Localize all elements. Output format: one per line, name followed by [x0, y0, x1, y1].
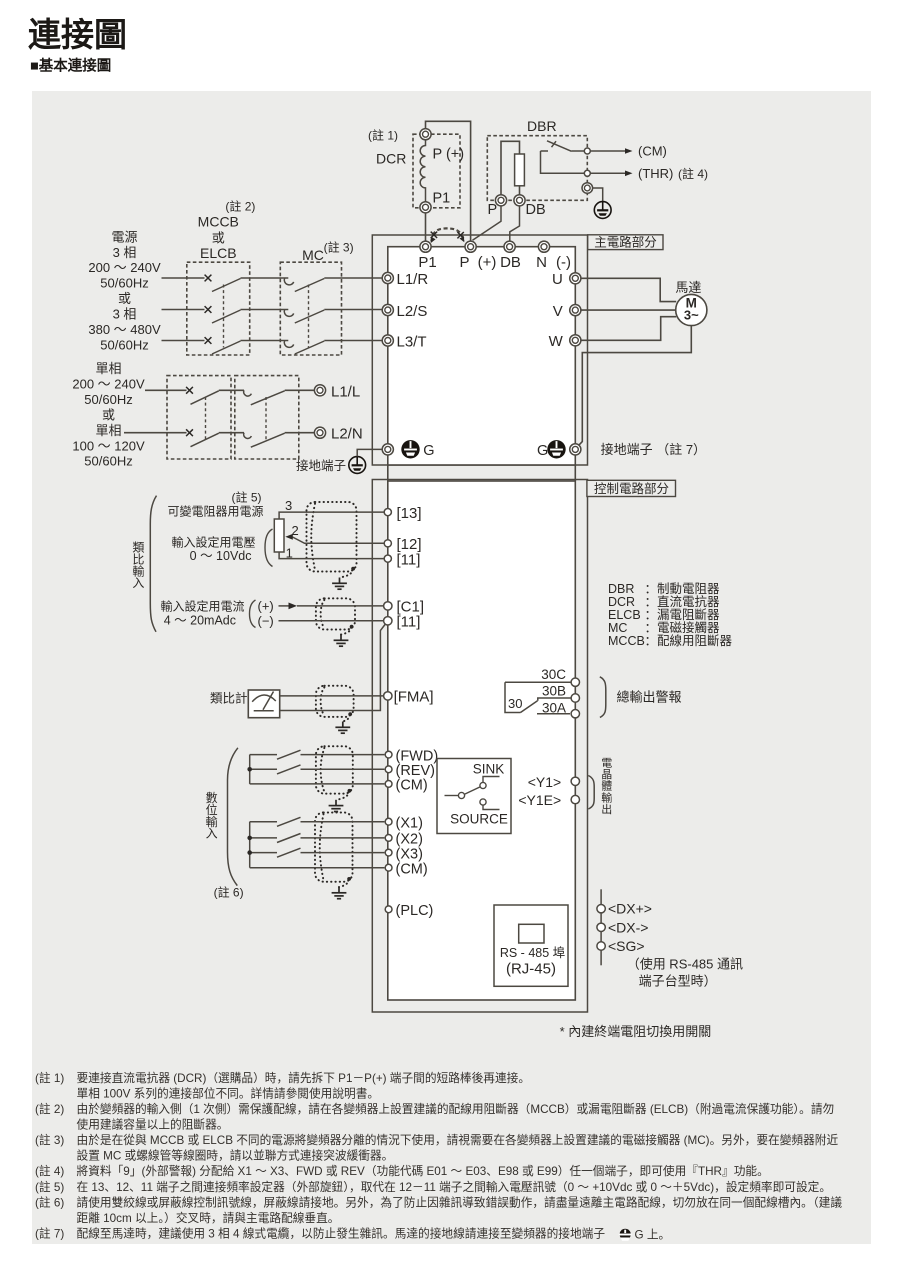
svg-text:L1/L: L1/L	[331, 383, 360, 400]
svg-text:將資料「9」(外部警報) 分配給 X1 〜 X3、FWD 或: 將資料「9」(外部警報) 分配給 X1 〜 X3、FWD 或 REV（功能代碼 …	[77, 1164, 769, 1178]
dashed jumper bar P1 to P(+) (to be removed)	[431, 228, 464, 241]
svg-text:(CM): (CM)	[396, 778, 428, 794]
junction dot X2	[247, 836, 252, 841]
terminal L3/T	[382, 335, 393, 346]
breaker pole 2 (MCCB/ELCB)	[205, 306, 212, 313]
wire V to motor	[581, 309, 676, 311]
svg-text:(-): (-)	[556, 254, 571, 271]
svg-text:配線至馬達時，建議使用 3 相 4 線式電纜，以防止發生雜訊: 配線至馬達時，建議使用 3 相 4 線式電纜，以防止發生雜訊。馬達的接地線請連接…	[77, 1227, 606, 1241]
digital bus X group	[249, 822, 251, 868]
svg-text:SOURCE: SOURCE	[450, 811, 508, 826]
terminal DX+	[597, 905, 605, 913]
svg-text:(X3): (X3)	[396, 846, 423, 862]
svg-text:(REV): (REV)	[396, 763, 435, 779]
ground of X shield	[332, 887, 347, 899]
terminal (CM) 2	[385, 864, 392, 871]
bracket 數位輸入	[228, 748, 238, 886]
wire contactor to input terminal phase 1	[324, 277, 382, 279]
contactor mechanical link dashed	[308, 285, 310, 348]
svg-text:MC: MC	[608, 621, 627, 635]
bracket 類比輸入	[150, 496, 156, 632]
svg-text:(註 2): (註 2)	[225, 199, 255, 213]
svg-text:1: 1	[286, 546, 293, 561]
svg-text:30B: 30B	[542, 684, 566, 699]
svg-text:L1/R: L1/R	[397, 271, 429, 288]
terminal P(+) (main)	[465, 241, 476, 252]
svg-text:3: 3	[285, 498, 292, 513]
svg-text:200 〜 240V: 200 〜 240V	[88, 260, 161, 275]
svg-text:出: 出	[601, 802, 612, 816]
svg-text:50/60Hz: 50/60Hz	[100, 276, 148, 291]
resistor DBR element	[515, 154, 525, 186]
svg-text:V: V	[553, 303, 563, 320]
svg-text:(註 2): (註 2)	[35, 1103, 64, 1116]
svg-text:要連接直流電抗器 (DCR)（選購品）時，請先拆下 P1－P: 要連接直流電抗器 (DCR)（選購品）時，請先拆下 P1－P(+) 端子間的短路…	[77, 1071, 531, 1085]
svg-text:2: 2	[292, 523, 299, 538]
svg-text:0 〜 10Vdc: 0 〜 10Vdc	[190, 549, 252, 563]
analog meter symbol	[248, 690, 279, 718]
earth symbol DBR	[594, 202, 611, 219]
wire pot terminal 3 to [13]	[279, 512, 384, 519]
svg-text:MCCB: MCCB	[198, 213, 239, 229]
wire breaker to contactor phase 3	[241, 340, 289, 342]
svg-text:<Y1E>: <Y1E>	[518, 792, 561, 808]
switch X1	[250, 821, 277, 823]
inner edge connector left between boxes	[387, 465, 389, 481]
protective earth symbol G right	[547, 440, 565, 458]
svg-text:<SG>: <SG>	[608, 938, 645, 954]
svg-text:[11]: [11]	[397, 551, 421, 568]
svg-text:或: 或	[102, 407, 115, 422]
control-circuit outer box	[372, 480, 587, 1013]
svg-text:<DX->: <DX->	[608, 919, 648, 935]
svg-text:單相: 單相	[95, 361, 121, 376]
svg-text:DB: DB	[500, 254, 521, 271]
svg-text:(X1): (X1)	[396, 816, 423, 832]
svg-text:：配線用阻斷器: ：配線用阻斷器	[645, 633, 733, 648]
wire resistor to DB	[519, 186, 521, 195]
terminal 30A	[571, 710, 579, 718]
svg-text:(註 1): (註 1)	[368, 129, 398, 143]
wire CM2 common	[250, 867, 385, 869]
svg-text:3~: 3~	[684, 308, 699, 323]
wire contactor to L-terminal 1	[285, 389, 315, 391]
svg-text:由於變頻器的輸入側（1 次側）需保護配線，請在各變頻器上設置: 由於變頻器的輸入側（1 次側）需保護配線，請在各變頻器上設置建議的配線用阻斷器（…	[77, 1102, 835, 1116]
terminal P1 (main)	[420, 241, 431, 252]
brace alarm outputs	[600, 677, 606, 718]
svg-text:(RJ-45): (RJ-45)	[506, 961, 556, 978]
wire CM common	[250, 783, 385, 785]
terminal 30B	[571, 694, 579, 702]
x-mark remove jumper left	[431, 232, 437, 238]
svg-text:電: 電	[601, 757, 612, 770]
ground of FWD shield	[329, 800, 344, 812]
svg-text:P: P	[488, 202, 498, 218]
control-circuit inner box	[388, 481, 576, 1000]
svg-text:DCR: DCR	[376, 151, 406, 167]
svg-text:輸入設定用電流: 輸入設定用電流	[160, 599, 244, 614]
svg-text:[FMA]: [FMA]	[394, 689, 434, 706]
svg-text:3 相: 3 相	[113, 245, 137, 260]
terminal [13]	[384, 508, 391, 515]
wire source phase 3	[162, 340, 205, 342]
arrow to (THR)	[590, 172, 627, 174]
wire DBR ground to earth	[593, 188, 603, 202]
wire single-phase line 2	[124, 432, 187, 434]
terminal N(-) (main)	[538, 241, 549, 252]
protective earth symbol G left	[401, 440, 419, 458]
shield around FWD/REV/CM wires	[316, 746, 353, 800]
svg-text:100 〜 120V: 100 〜 120V	[72, 438, 145, 453]
terminal (X2)	[385, 835, 392, 842]
svg-text:端子台型時）: 端子台型時）	[639, 973, 717, 988]
svg-text:DCR: DCR	[608, 595, 635, 609]
svg-text:P (+): P (+)	[433, 147, 465, 163]
svg-text:L2/N: L2/N	[331, 426, 363, 443]
terminal [11] analog common	[384, 617, 392, 625]
svg-text:入: 入	[132, 576, 144, 590]
wire meter to [FMA]	[280, 695, 385, 697]
wiper wire from [12]	[293, 537, 385, 543]
svg-text:可變電阻器用電源: 可變電阻器用電源	[167, 504, 263, 519]
svg-text:MCCB: MCCB	[608, 634, 645, 648]
breaker pole 3 (MCCB/ELCB)	[205, 337, 212, 344]
svg-text:(註 5): (註 5)	[232, 490, 262, 504]
svg-text:(註 1): (註 1)	[35, 1072, 64, 1085]
svg-text:：電磁接觸器: ：電磁接觸器	[645, 620, 721, 635]
wire single-phase line 1	[145, 389, 187, 391]
terminal G (right)	[570, 444, 581, 455]
contact node to (THR)	[584, 170, 590, 176]
switch FWD	[250, 754, 277, 756]
svg-text:30C: 30C	[541, 667, 566, 682]
main-circuit inner box (inverter power section)	[388, 247, 576, 465]
svg-text:(CM): (CM)	[396, 862, 428, 878]
single-phase breaker link dashed	[205, 397, 207, 440]
terminal G (left)	[382, 444, 393, 455]
terminal DB (main)	[504, 241, 515, 252]
terminal DB of DBR	[514, 195, 525, 206]
contactor pole 3 (MC)	[284, 341, 293, 348]
ground terminal of DBR	[582, 183, 593, 194]
main-circuit outer box	[372, 235, 587, 465]
switch X2	[250, 837, 277, 839]
svg-text:由於是在從與 MCCB 或 ELCB 不同的電源將變頻器分離: 由於是在從與 MCCB 或 ELCB 不同的電源將變頻器分離的情況下使用，請視需…	[77, 1133, 839, 1147]
svg-text:(註 3): (註 3)	[324, 241, 354, 255]
svg-text:4 〜 20mAdc: 4 〜 20mAdc	[164, 613, 236, 627]
svg-text:輸: 輸	[601, 790, 612, 804]
svg-text:：制動電阻器: ：制動電阻器	[645, 582, 721, 596]
terminal U	[570, 273, 581, 284]
svg-text:<Y1>: <Y1>	[528, 774, 561, 790]
svg-text:(註 4): (註 4)	[35, 1165, 64, 1178]
svg-text:馬達: 馬達	[675, 280, 701, 295]
svg-text:(+): (+)	[478, 254, 497, 271]
svg-text:50/60Hz: 50/60Hz	[100, 337, 148, 352]
bracket for voltage input rows	[265, 529, 273, 567]
wire meter return to [11]	[280, 624, 386, 711]
svg-text:L2/S: L2/S	[397, 303, 428, 320]
svg-text:(THR): (THR)	[638, 166, 673, 181]
terminal (PLC)	[385, 906, 392, 913]
svg-text:體: 體	[601, 780, 612, 793]
svg-text:[11]: [11]	[397, 614, 421, 631]
terminal L2/S	[382, 304, 393, 315]
wire contactor to L-terminal 2	[285, 432, 315, 434]
svg-text:■基本連接圖: ■基本連接圖	[30, 57, 111, 75]
bracket for current input rows	[250, 600, 256, 628]
svg-text:（使用 RS-485 通訊: （使用 RS-485 通訊	[627, 957, 743, 972]
single-phase MCCB dashed box	[167, 376, 231, 459]
svg-text:* 內建終端電阻切換用開關: * 內建終端電阻切換用開關	[560, 1024, 712, 1039]
svg-text:<DX+>: <DX+>	[608, 901, 652, 917]
single-phase contactor pole 1	[244, 390, 252, 396]
terminal 30C	[571, 678, 579, 686]
shield around meter wires	[316, 686, 354, 722]
svg-text:類比計: 類比計	[210, 690, 248, 705]
wire DBR P to main P(+)	[473, 206, 502, 240]
svg-text:N: N	[536, 254, 547, 271]
svg-text:(FWD): (FWD)	[396, 748, 439, 764]
RJ-45 jack square	[519, 924, 544, 943]
wire thermal contact to THR	[541, 151, 585, 173]
svg-text:P1: P1	[418, 254, 436, 271]
svg-text:控制電路部分: 控制電路部分	[594, 481, 669, 496]
contactor pole 2 (MC)	[284, 310, 293, 317]
contact node to (CM)	[584, 148, 590, 154]
wire DBR DB to main DB	[510, 206, 520, 241]
wire contactor to input terminal phase 2	[324, 309, 382, 311]
svg-text:(註 6): (註 6)	[35, 1196, 64, 1209]
svg-text:(+): (+)	[258, 599, 274, 614]
single-phase MC dashed box	[235, 376, 299, 459]
arrow to (CM)	[590, 150, 627, 152]
terminal (CM)	[385, 781, 392, 788]
switch X3	[250, 852, 277, 854]
terminal Y1E	[571, 795, 579, 803]
wire W to motor	[581, 317, 676, 341]
ground of current shield	[334, 635, 349, 647]
svg-text:G 上。: G 上。	[635, 1229, 671, 1242]
inductor coil DCR	[420, 140, 425, 202]
svg-text:距離 10cm 以上。）交叉時，請與主電路配線垂直。: 距離 10cm 以上。）交叉時，請與主電路配線垂直。	[77, 1211, 340, 1225]
svg-text:或: 或	[118, 291, 131, 306]
wire to single-phase contactor 1	[219, 389, 244, 391]
wire to single-phase contactor 2	[219, 432, 244, 434]
svg-text:請使用雙絞線或屏蔽線控制訊號線，屏蔽線請接地。另外，為了防止: 請使用雙絞線或屏蔽線控制訊號線，屏蔽線請接地。另外，為了防止因雜訊導致錯誤動作，…	[77, 1195, 843, 1209]
shield around current input wires	[316, 598, 355, 634]
terminal (FWD)	[385, 751, 392, 758]
SINK/SOURCE selector box	[437, 759, 511, 834]
shield around potentiometer wires	[307, 502, 357, 578]
svg-text:接地端子 （註 7）: 接地端子 （註 7）	[601, 442, 706, 457]
svg-text:50/60Hz: 50/60Hz	[84, 392, 132, 407]
motor M circle	[676, 294, 707, 325]
thermal contact in DBR	[541, 150, 549, 152]
switch REV	[250, 768, 277, 770]
single-phase contactor link dashed	[265, 397, 267, 440]
wire source phase 2	[162, 309, 205, 311]
svg-text:：直流電抗器: ：直流電抗器	[645, 594, 721, 609]
svg-text:200 〜 240V: 200 〜 240V	[72, 376, 145, 391]
wire DCR P(+) up-over to main P(+)	[426, 121, 471, 241]
terminal [FMA]	[384, 692, 392, 700]
wire breaker to contactor phase 2	[241, 309, 289, 311]
svg-text:輸入設定用電壓: 輸入設定用電壓	[171, 535, 255, 550]
digital bus FWD group	[249, 755, 251, 784]
wire U to motor	[581, 278, 676, 301]
terminal V	[570, 305, 581, 316]
svg-text:(註 4): (註 4)	[678, 167, 708, 181]
svg-text:入: 入	[206, 827, 218, 841]
wire pot terminal 1 to [11]	[279, 552, 384, 559]
inner edge connector right between boxes	[574, 465, 576, 481]
svg-text:單相 100V 系列的連接部位不同。詳情請參閱使用說明書。: 單相 100V 系列的連接部位不同。詳情請參閱使用說明書。	[77, 1086, 380, 1100]
shield around X1-X3 wires	[315, 813, 353, 888]
terminal P of DBR	[495, 195, 506, 206]
wire motor ground to G right	[577, 326, 692, 448]
breaker mechanical link dashed	[223, 285, 225, 348]
terminal DX-	[597, 923, 605, 931]
svg-text:DBR: DBR	[608, 582, 634, 596]
svg-text:P: P	[459, 254, 469, 271]
svg-text:(−): (−)	[258, 613, 274, 628]
svg-text:380 〜 480V: 380 〜 480V	[88, 322, 161, 337]
svg-text:30A: 30A	[542, 701, 566, 716]
wire DCR P1 down to main P1	[425, 213, 427, 241]
svg-text:使用建議容量以上的阻斷器。: 使用建議容量以上的阻斷器。	[77, 1118, 229, 1132]
ground of meter shield	[335, 722, 350, 734]
svg-text:總輸出警報: 總輸出警報	[617, 690, 682, 705]
RS-485 terminal strip line	[600, 889, 602, 965]
svg-text:50/60Hz: 50/60Hz	[84, 454, 132, 469]
svg-text:接地端子: 接地端子	[296, 458, 346, 473]
wire breaker to contactor phase 1	[241, 277, 289, 279]
svg-text:：漏電阻斷器: ：漏電阻斷器	[645, 607, 721, 622]
svg-text:或: 或	[212, 230, 225, 245]
svg-text:(X2): (X2)	[396, 832, 423, 848]
terminal W	[570, 335, 581, 346]
terminal L1/L	[314, 385, 325, 396]
svg-text:W: W	[549, 333, 564, 350]
svg-text:DBR: DBR	[527, 118, 557, 134]
svg-text:L3/T: L3/T	[397, 333, 427, 350]
wire P up-over inside DBR	[501, 141, 520, 195]
svg-text:P1: P1	[433, 191, 451, 207]
MCCB/ELCB dashed box	[187, 262, 250, 355]
junction dot REV	[247, 767, 252, 772]
svg-text:連接圖: 連接圖	[28, 16, 127, 53]
single-phase breaker pole 2	[186, 429, 193, 436]
terminal [11]	[384, 555, 391, 562]
svg-text:(註 7): (註 7)	[35, 1228, 64, 1241]
svg-text:單相: 單相	[95, 423, 121, 438]
terminal (X1)	[385, 818, 392, 825]
svg-text:ELCB: ELCB	[200, 245, 237, 261]
wire (−) to [11]	[279, 620, 385, 622]
svg-text:(註 6): (註 6)	[214, 885, 244, 899]
wire contactor to input terminal phase 3	[324, 340, 382, 342]
ground of pot shield	[332, 578, 347, 590]
svg-text:在 13、12、11 端子之間連接頻率設定器（外部旋鈕），取: 在 13、12、11 端子之間連接頻率設定器（外部旋鈕），取代在 12－11 端…	[77, 1180, 832, 1194]
junction dot X3	[247, 850, 252, 855]
label box 控制電路部分	[587, 480, 676, 496]
svg-text:(註 5): (註 5)	[35, 1181, 64, 1194]
wire (+) to [C1] with arrow	[279, 605, 290, 607]
terminal Y1	[571, 777, 579, 785]
svg-text:DB: DB	[526, 202, 546, 218]
brace transistor outputs	[588, 776, 594, 810]
svg-text:U: U	[552, 271, 563, 288]
single-phase contactor pole 2	[244, 433, 252, 439]
svg-text:電源: 電源	[111, 229, 137, 244]
svg-text:設置 MC 或螺線管等線圈時，請以並聯方式連接突波緩衝器。: 設置 MC 或螺線管等線圈時，請以並聯方式連接突波緩衝器。	[77, 1149, 394, 1163]
MC dashed box	[280, 262, 341, 355]
terminal (REV)	[385, 766, 392, 773]
svg-text:主電路部分: 主電路部分	[594, 234, 657, 249]
terminal L2/N	[314, 427, 325, 438]
svg-text:ELCB: ELCB	[608, 608, 641, 622]
svg-text:[13]: [13]	[397, 505, 422, 522]
terminal L1/R	[382, 272, 393, 283]
svg-text:(PLC): (PLC)	[396, 903, 434, 919]
label box 主電路部分	[588, 235, 663, 250]
svg-text:晶: 晶	[601, 768, 612, 781]
terminal [C1]	[384, 602, 392, 610]
svg-text:RS - 485 埠: RS - 485 埠	[500, 946, 565, 960]
svg-text:MC: MC	[302, 247, 324, 263]
terminal P(+) of DCR	[420, 129, 431, 140]
x-mark remove jumper right	[457, 232, 463, 238]
relay 30 contact	[505, 681, 571, 683]
earth symbol in footnote	[619, 1229, 632, 1241]
wire source phase 1	[162, 277, 205, 279]
breaker pole 1 (MCCB/ELCB)	[205, 275, 212, 282]
terminal SG	[597, 942, 605, 950]
DBR dashed box	[487, 136, 587, 201]
svg-text:3 相: 3 相	[113, 307, 137, 322]
svg-text:(註 3): (註 3)	[35, 1134, 64, 1147]
terminal (X3)	[385, 849, 392, 856]
svg-text:G: G	[423, 443, 434, 459]
RS-485 port box	[494, 905, 568, 986]
terminal [12]	[384, 540, 391, 547]
selector switch	[445, 795, 459, 797]
contactor pole 1 (MC)	[284, 278, 293, 285]
earth terminal symbol (left)	[349, 457, 366, 474]
potentiometer body	[274, 519, 284, 552]
svg-text:G: G	[537, 443, 548, 459]
single-phase breaker pole 1	[186, 387, 193, 394]
wire earth to G terminal	[357, 449, 382, 456]
svg-text:30: 30	[508, 696, 522, 711]
svg-text:SINK: SINK	[473, 762, 505, 777]
DCR dashed box	[413, 134, 460, 208]
terminal P1 of DCR	[420, 202, 431, 213]
svg-text:(CM): (CM)	[638, 144, 667, 159]
